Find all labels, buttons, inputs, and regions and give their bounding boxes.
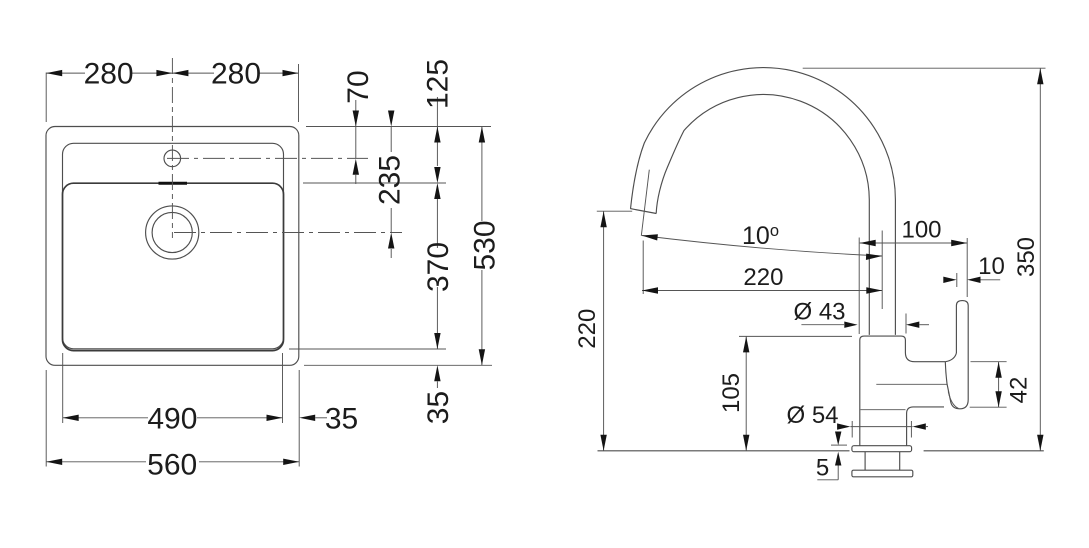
svg-text:350: 350: [1013, 237, 1040, 277]
svg-text:100: 100: [901, 217, 941, 244]
svg-text:530: 530: [468, 220, 501, 270]
svg-text:5: 5: [816, 455, 829, 482]
svg-text:560: 560: [147, 449, 197, 482]
svg-text:220: 220: [574, 309, 601, 349]
svg-text:125: 125: [421, 59, 454, 109]
svg-text:Ø 54: Ø 54: [786, 402, 838, 429]
svg-text:70: 70: [342, 70, 375, 103]
svg-text:Ø 43: Ø 43: [793, 299, 845, 326]
svg-text:35: 35: [422, 391, 455, 424]
svg-text:220: 220: [743, 264, 783, 291]
svg-text:10: 10: [978, 253, 1005, 280]
svg-text:490: 490: [147, 402, 197, 435]
svg-text:105: 105: [718, 373, 745, 413]
svg-text:370: 370: [422, 242, 455, 292]
svg-text:280: 280: [84, 58, 134, 91]
svg-text:280: 280: [211, 58, 261, 91]
svg-text:42: 42: [1006, 377, 1033, 404]
svg-text:235: 235: [373, 155, 406, 205]
svg-text:35: 35: [325, 402, 358, 435]
